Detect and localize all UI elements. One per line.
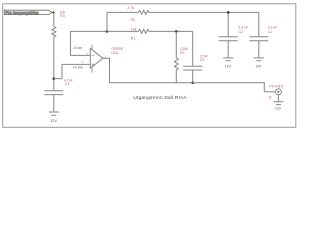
net label flag "Fra inngangstrinn" [4,10,52,15]
svg-text:R3: R3 [180,51,185,55]
svg-text:-V inn: -V inn [73,46,82,50]
capacitor C2 [219,37,238,58]
svg-text:C1: C1 [268,30,273,34]
op-amp V- stub [91,67,93,73]
wire feedback vertical [106,12,108,31]
wire op-amp output [103,58,110,83]
svg-text:PHONO: PHONO [269,85,283,89]
wire from flag to R4 [52,12,54,26]
capacitor C4 [44,91,63,112]
resistor R3 vertical [174,31,178,82]
junction dot C2 top [227,11,230,14]
svg-text:3.3 uF: 3.3 uF [268,26,278,30]
wire R2 left segment [107,11,139,13]
svg-text:2.7k: 2.7k [127,6,134,10]
wire inverting input net [71,31,108,55]
svg-text:3: 3 [82,60,84,64]
op-amp V+ stub [91,45,93,50]
op-amp U1A triangle [90,48,103,68]
svg-text:12V: 12V [255,64,262,68]
wire R1 left segment [107,30,139,32]
svg-text:J2: J2 [268,95,272,99]
svg-text:C5: C5 [200,58,205,62]
svg-text:R2: R2 [131,18,136,22]
resistor R4 vertical zigzag [52,26,56,37]
capacitor C1 [249,37,268,58]
wire C2 drop [227,12,229,36]
ground under C2 [223,58,233,69]
wire R1 to R3/C5 [149,30,193,32]
ground under C1 [254,58,264,69]
svg-text:+V inn: +V inn [73,65,83,69]
svg-text:Fra inngangstrinn: Fra inngangstrinn [5,10,38,15]
junction dot R3 top [175,30,178,33]
junction dot inverting node [106,30,109,33]
ground under PHONO [273,95,283,111]
resistor R2 horizontal zigzag [139,10,149,14]
junction at flag tip [52,11,54,13]
wire R4 to node A [53,37,55,90]
op-amp minus sign [92,54,94,56]
svg-text:C2: C2 [238,30,243,34]
wire C1 drop [258,12,260,36]
svg-text:10k: 10k [131,27,137,31]
svg-text:12V: 12V [275,106,282,110]
svg-text:U1A: U1A [111,51,118,55]
svg-text:C4: C4 [65,82,70,86]
svg-text:3.3 uF: 3.3 uF [238,26,248,30]
wire R2 to C2/C1 top net [149,11,259,13]
wire jog node A to +input [54,64,91,78]
resistor R1 horizontal zigzag [139,29,149,33]
node A junction dot [53,77,56,80]
svg-text:R4: R4 [60,14,65,18]
capacitor C5 [183,31,202,82]
ground under C4 [49,112,59,123]
svg-text:Opamp: Opamp [111,47,123,51]
svg-text:Utgangstrinn Dali RIAA: Utgangstrinn Dali RIAA [133,95,187,100]
svg-text:R1: R1 [131,37,136,41]
op-amp plus sign [92,63,94,65]
border frame [3,4,296,128]
wire bottom rail [110,83,276,92]
junction dot C5 bottom [191,82,194,85]
svg-text:12V: 12V [50,119,57,123]
svg-text:12V: 12V [225,64,232,68]
connector J2 PHONO jack [268,85,284,100]
